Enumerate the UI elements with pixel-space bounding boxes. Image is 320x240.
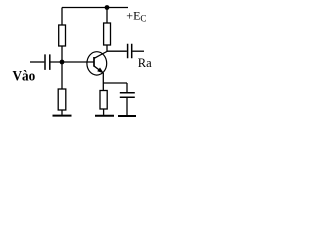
wire: CE bottom lead — [126, 98, 128, 115]
wire: RE bottom lead — [103, 109, 105, 115]
resistor R2 (lower bias divider) — [58, 89, 66, 110]
transistor Q1 base bar — [93, 57, 95, 67]
wire: R1 bottom to base node to R2 top — [61, 46, 63, 89]
wire: rail corner down to R1 — [61, 8, 63, 26]
wire: emitter node branch to CE — [103, 82, 127, 84]
transistor Q1 emitter arrowhead — [97, 68, 104, 74]
wire: C1 to base node to transistor base — [51, 61, 95, 63]
wire: RC top lead to rail — [106, 8, 108, 24]
transistor Q1 emitter stroke — [94, 66, 104, 73]
svg-text:+EC: +EC — [126, 8, 146, 23]
wire: emitter lead down to RE — [102, 73, 104, 91]
resistor RC (collector load) — [104, 23, 111, 45]
resistor R1 (upper bias divider) — [59, 25, 66, 46]
node: base junction dot — [60, 60, 65, 65]
capacitor CE (emitter bypass) — [120, 93, 135, 98]
wire: CE top lead — [126, 83, 128, 92]
wire: +Ec power rail — [62, 7, 128, 9]
transistor Q1 collector stroke and lead up to RC — [94, 45, 107, 59]
wire: input lead from Vao — [30, 61, 44, 63]
wire: R2 bottom lead — [61, 110, 63, 115]
node: rail junction dot — [105, 5, 110, 10]
transistor Q1 (NPN) body circle — [87, 52, 107, 75]
ground (under R2) — [53, 115, 72, 117]
capacitor C1 (input coupling) — [45, 54, 50, 70]
wire: collector node to output cap — [107, 50, 127, 52]
capacitor C2 (output coupling) — [128, 44, 132, 58]
svg-text:Ra: Ra — [138, 56, 152, 70]
svg-text:Vào: Vào — [13, 69, 36, 85]
wire: C2 right lead to Ra — [132, 50, 144, 52]
ground (under RE) — [95, 115, 114, 117]
ground (under CE) — [118, 115, 136, 117]
resistor RE (emitter) — [100, 91, 107, 110]
